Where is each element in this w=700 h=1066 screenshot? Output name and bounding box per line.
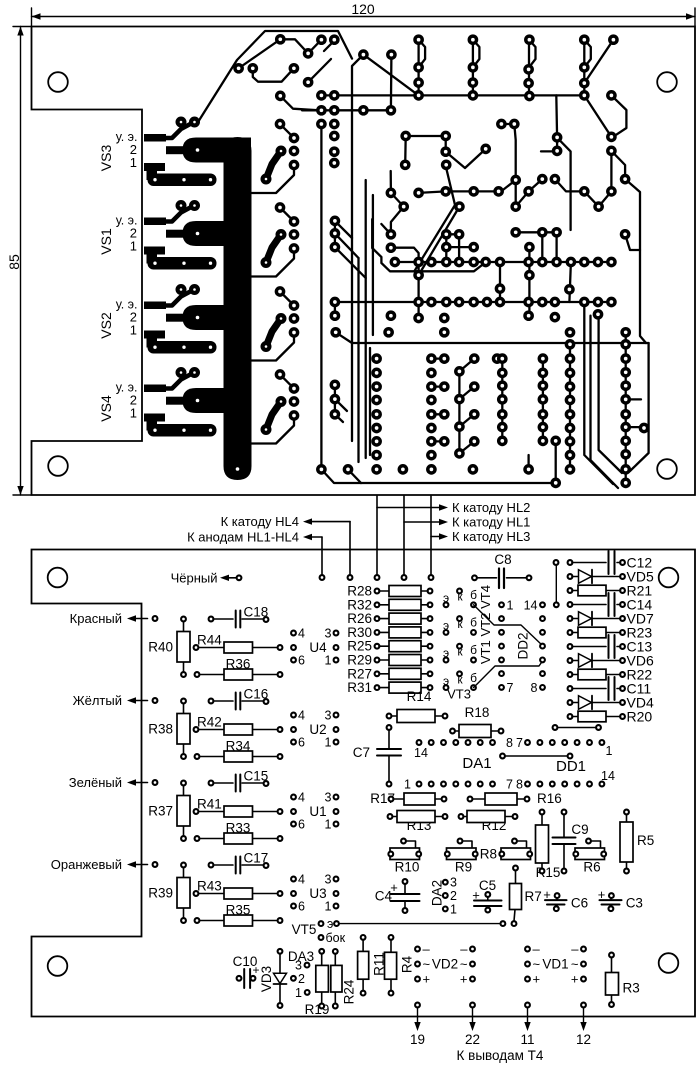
svg-text:1: 1 — [130, 155, 137, 170]
capacitor C11 — [568, 686, 573, 691]
svg-text:Жёлтый: Жёлтый — [73, 693, 122, 708]
svg-text:~: ~ — [533, 957, 541, 972]
bottom board mounting hole bottom-left — [48, 956, 68, 976]
svg-text:14: 14 — [414, 746, 428, 760]
svg-text:1: 1 — [130, 323, 137, 338]
resistor R21 — [568, 588, 573, 593]
optocoupler U2 — [291, 713, 296, 718]
output pad 19 to T4 — [415, 1003, 420, 1008]
svg-text:C9: C9 — [571, 822, 588, 837]
svg-text:8: 8 — [531, 681, 538, 695]
resistor R8 — [501, 848, 531, 860]
svg-text:DA1: DA1 — [462, 755, 491, 772]
svg-text:VD2: VD2 — [432, 957, 458, 972]
svg-text:VS1: VS1 — [98, 228, 114, 255]
svg-text:7: 7 — [516, 736, 523, 750]
optocoupler U4 — [291, 631, 296, 636]
svg-text:R42: R42 — [197, 715, 222, 730]
svg-text:~: ~ — [460, 957, 468, 972]
svg-text:R40: R40 — [148, 640, 173, 655]
resistor R10 — [390, 848, 420, 860]
svg-text:VD1: VD1 — [542, 957, 568, 972]
svg-text:R29: R29 — [347, 653, 372, 668]
svg-text:–: – — [533, 942, 541, 957]
svg-text:3: 3 — [325, 791, 332, 805]
optocoupler U3 — [291, 877, 296, 882]
svg-text:–: – — [571, 942, 579, 957]
svg-text:R41: R41 — [197, 797, 222, 812]
diode VD7 — [568, 616, 573, 621]
pads row top (HL connections) — [320, 575, 325, 580]
svg-text:VT1: VT1 — [478, 640, 493, 664]
svg-text:12: 12 — [576, 1032, 591, 1047]
svg-text:Оранжевый: Оранжевый — [51, 857, 122, 872]
svg-text:1: 1 — [450, 902, 457, 916]
top board mounting hole bottom-right — [657, 459, 677, 479]
svg-text:–: – — [460, 942, 468, 957]
svg-text:7: 7 — [506, 778, 513, 792]
svg-text:R7: R7 — [525, 889, 542, 904]
traces right of bus bar at VS4 — [266, 402, 281, 430]
svg-text:C7: C7 — [353, 745, 370, 760]
svg-text:VT5: VT5 — [292, 922, 317, 937]
svg-text:R9: R9 — [455, 860, 472, 875]
svg-text:1: 1 — [130, 239, 137, 254]
svg-text:R26: R26 — [347, 611, 372, 626]
svg-text:3: 3 — [450, 876, 457, 890]
svg-text:+: + — [460, 972, 468, 987]
wire VT4 base to DD2 — [474, 605, 543, 646]
svg-text:R43: R43 — [197, 879, 222, 894]
svg-text:DD2: DD2 — [516, 632, 531, 659]
svg-text:3: 3 — [325, 627, 332, 641]
svg-text:VD3: VD3 — [259, 966, 274, 992]
svg-text:VT4: VT4 — [478, 585, 493, 609]
svg-text:R28: R28 — [347, 584, 372, 599]
wire long bottom net — [501, 921, 506, 926]
svg-text:6: 6 — [298, 818, 305, 832]
svg-text:VT3: VT3 — [447, 687, 471, 702]
top board mounting hole bottom-left — [48, 456, 68, 476]
svg-text:R18: R18 — [465, 705, 490, 720]
svg-text:C3: C3 — [626, 896, 643, 911]
capacitor C13 — [568, 644, 573, 649]
svg-text:2: 2 — [298, 972, 305, 986]
svg-text:R24: R24 — [342, 979, 357, 1004]
svg-text:1: 1 — [507, 598, 514, 612]
svg-text:DD1: DD1 — [556, 758, 586, 775]
diode VD6 — [568, 658, 573, 663]
svg-text:R25: R25 — [347, 639, 372, 654]
svg-text:R6: R6 — [583, 860, 600, 875]
svg-text:3: 3 — [325, 873, 332, 887]
svg-text:3: 3 — [325, 709, 332, 723]
resistor R20 — [568, 714, 573, 719]
svg-text:6: 6 — [298, 654, 305, 668]
bridge rectifier VD2 — [415, 947, 420, 952]
capacitor C12 — [568, 560, 573, 565]
output pad 11 to T4 — [525, 1003, 530, 1008]
IC DA1 — [417, 740, 422, 745]
top board mounting hole top-left — [48, 72, 68, 92]
svg-text:+: + — [390, 880, 398, 895]
bottom board mounting hole top-left — [48, 568, 68, 588]
svg-text:R31: R31 — [347, 680, 372, 695]
svg-text:R27: R27 — [347, 666, 372, 681]
svg-text:К выводам Т4: К выводам Т4 — [457, 1048, 544, 1063]
bottom board mounting hole top-right — [659, 568, 679, 588]
svg-text:8: 8 — [506, 736, 513, 750]
wire to K katodu HL4 — [349, 522, 351, 578]
traces right of bus bar at VS1 — [266, 235, 281, 263]
svg-text:4: 4 — [298, 627, 305, 641]
bottom board mounting hole bottom-right — [659, 953, 679, 973]
capacitor C14 — [568, 602, 573, 607]
wire to K katodu HL1 — [403, 496, 405, 578]
svg-text:VS2: VS2 — [98, 312, 114, 339]
IC DD1 — [525, 740, 530, 745]
svg-text:R37: R37 — [148, 804, 173, 819]
svg-text:R19: R19 — [305, 1002, 330, 1017]
svg-text:1: 1 — [325, 654, 332, 668]
svg-text:8: 8 — [516, 778, 523, 792]
svg-text:14: 14 — [601, 769, 615, 783]
svg-text:–: – — [423, 942, 431, 957]
svg-text:1: 1 — [325, 736, 332, 750]
diode VD5 — [568, 574, 573, 579]
resistor R22 — [568, 672, 573, 677]
svg-text:14: 14 — [524, 598, 538, 612]
svg-text:К катоду HL2: К катоду HL2 — [452, 500, 530, 515]
top board mounting hole top-right — [657, 72, 677, 92]
bottom board outline — [32, 550, 696, 1017]
output pad 12 to T4 — [581, 1003, 586, 1008]
svg-text:Красный: Красный — [70, 611, 122, 626]
wire to K anodam HL1-HL4 — [321, 537, 323, 578]
bridge rectifier VD1 — [525, 947, 530, 952]
node Cherny (black wire pad) — [237, 575, 242, 580]
wire VT3 base to DD2 — [474, 661, 543, 688]
svg-text:б: б — [470, 616, 477, 630]
output pad 22 to T4 — [470, 1003, 475, 1008]
svg-text:+: + — [423, 972, 431, 987]
svg-text:R30: R30 — [347, 625, 372, 640]
svg-text:~: ~ — [423, 957, 431, 972]
traces right of bus bar at VS3 — [266, 151, 281, 179]
svg-text:Зелёный: Зелёный — [69, 775, 122, 790]
wire DD2 pin14 to C12 net — [554, 602, 559, 607]
svg-text:C6: C6 — [571, 896, 588, 911]
svg-text:бок: бок — [326, 931, 346, 945]
svg-text:19: 19 — [410, 1032, 425, 1047]
svg-text:Чёрный: Чёрный — [171, 571, 218, 586]
svg-text:1: 1 — [325, 818, 332, 832]
svg-text:R8: R8 — [480, 847, 497, 862]
svg-text:4: 4 — [298, 791, 305, 805]
resistor R9 — [447, 848, 477, 860]
svg-text:К катоду HL1: К катоду HL1 — [452, 515, 530, 530]
svg-text:22: 22 — [465, 1032, 480, 1047]
svg-text:4: 4 — [298, 709, 305, 723]
wire under R20 — [553, 725, 558, 730]
top board outline — [32, 27, 696, 496]
wire DA1 to DD1 — [500, 754, 505, 759]
svg-text:К катоду HL3: К катоду HL3 — [452, 529, 530, 544]
svg-text:R20: R20 — [627, 708, 653, 724]
svg-text:э: э — [327, 917, 333, 931]
thick copper bus bar — [224, 137, 252, 480]
optocoupler U1 — [291, 795, 296, 800]
svg-text:К анодам HL1-HL4: К анодам HL1-HL4 — [187, 530, 299, 545]
svg-text:R44: R44 — [197, 633, 222, 648]
resistor R6 — [575, 848, 605, 860]
svg-text:R14: R14 — [407, 689, 432, 704]
wire to K katodu HL2 — [376, 496, 378, 578]
svg-text:VS3: VS3 — [98, 145, 114, 172]
wire to K katodu HL3 — [430, 496, 432, 578]
svg-text:85: 85 — [6, 254, 22, 270]
svg-text:1: 1 — [325, 900, 332, 914]
svg-text:+: + — [533, 972, 541, 987]
svg-text:R3: R3 — [623, 981, 640, 996]
svg-text:R16: R16 — [537, 791, 562, 806]
svg-text:1: 1 — [606, 744, 613, 758]
svg-text:б: б — [470, 588, 477, 602]
svg-text:R10: R10 — [395, 860, 420, 875]
svg-text:C5: C5 — [479, 878, 496, 893]
svg-text:~: ~ — [571, 957, 579, 972]
svg-text:C8: C8 — [494, 552, 511, 567]
svg-text:120: 120 — [351, 1, 375, 17]
svg-text:1: 1 — [404, 778, 411, 792]
svg-text:R38: R38 — [148, 722, 173, 737]
svg-text:R39: R39 — [148, 886, 173, 901]
svg-text:4: 4 — [298, 873, 305, 887]
svg-text:6: 6 — [298, 736, 305, 750]
svg-text:б: б — [470, 671, 477, 685]
svg-text:2: 2 — [450, 889, 457, 903]
svg-text:б: б — [470, 643, 477, 657]
IC DD2 — [499, 602, 504, 607]
top board pad field — [305, 50, 312, 57]
svg-text:6: 6 — [298, 900, 305, 914]
svg-text:R5: R5 — [637, 833, 654, 848]
svg-text:1: 1 — [295, 986, 302, 1000]
diode VD4 — [568, 700, 573, 705]
svg-text:R4: R4 — [400, 955, 415, 973]
svg-text:1: 1 — [130, 406, 137, 421]
svg-text:+: + — [571, 972, 579, 987]
svg-text:7: 7 — [507, 681, 514, 695]
traces right of bus bar at VS2 — [266, 319, 281, 347]
svg-text:3: 3 — [295, 959, 302, 973]
svg-text:R32: R32 — [347, 597, 372, 612]
top board copper traces — [321, 94, 584, 96]
resistor R23 — [568, 630, 573, 635]
svg-text:VS4: VS4 — [98, 395, 114, 422]
svg-text:11: 11 — [520, 1032, 534, 1047]
svg-text:К катоду HL4: К катоду HL4 — [221, 514, 299, 529]
